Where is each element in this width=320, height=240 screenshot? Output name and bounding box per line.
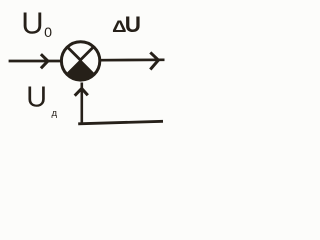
diagonal cross upper-left arm bbox=[67, 46, 81, 60]
wire: feedback bottom horizontal line bbox=[78, 121, 163, 124]
filled bottom sector of summing junction bbox=[67, 60, 95, 80]
diagonal cross upper-right arm bbox=[80, 46, 94, 60]
svg-text:U: U bbox=[125, 12, 141, 37]
wire: output line from circle to right bbox=[100, 58, 165, 61]
arrowhead on input wire bbox=[41, 54, 48, 68]
svg-text:0: 0 bbox=[44, 25, 52, 41]
svg-text:U: U bbox=[21, 6, 43, 41]
wire: feedback vertical line up to circle bbox=[81, 83, 84, 124]
svg-text:U: U bbox=[26, 81, 47, 113]
arrowhead on feedback wire (pointing up) bbox=[75, 89, 88, 96]
arrowhead on output wire bbox=[150, 52, 158, 69]
summing junction circle U1 bbox=[61, 42, 99, 80]
svg-text:д: д bbox=[52, 108, 58, 119]
wire: input line from left to summing circle bbox=[9, 60, 62, 63]
